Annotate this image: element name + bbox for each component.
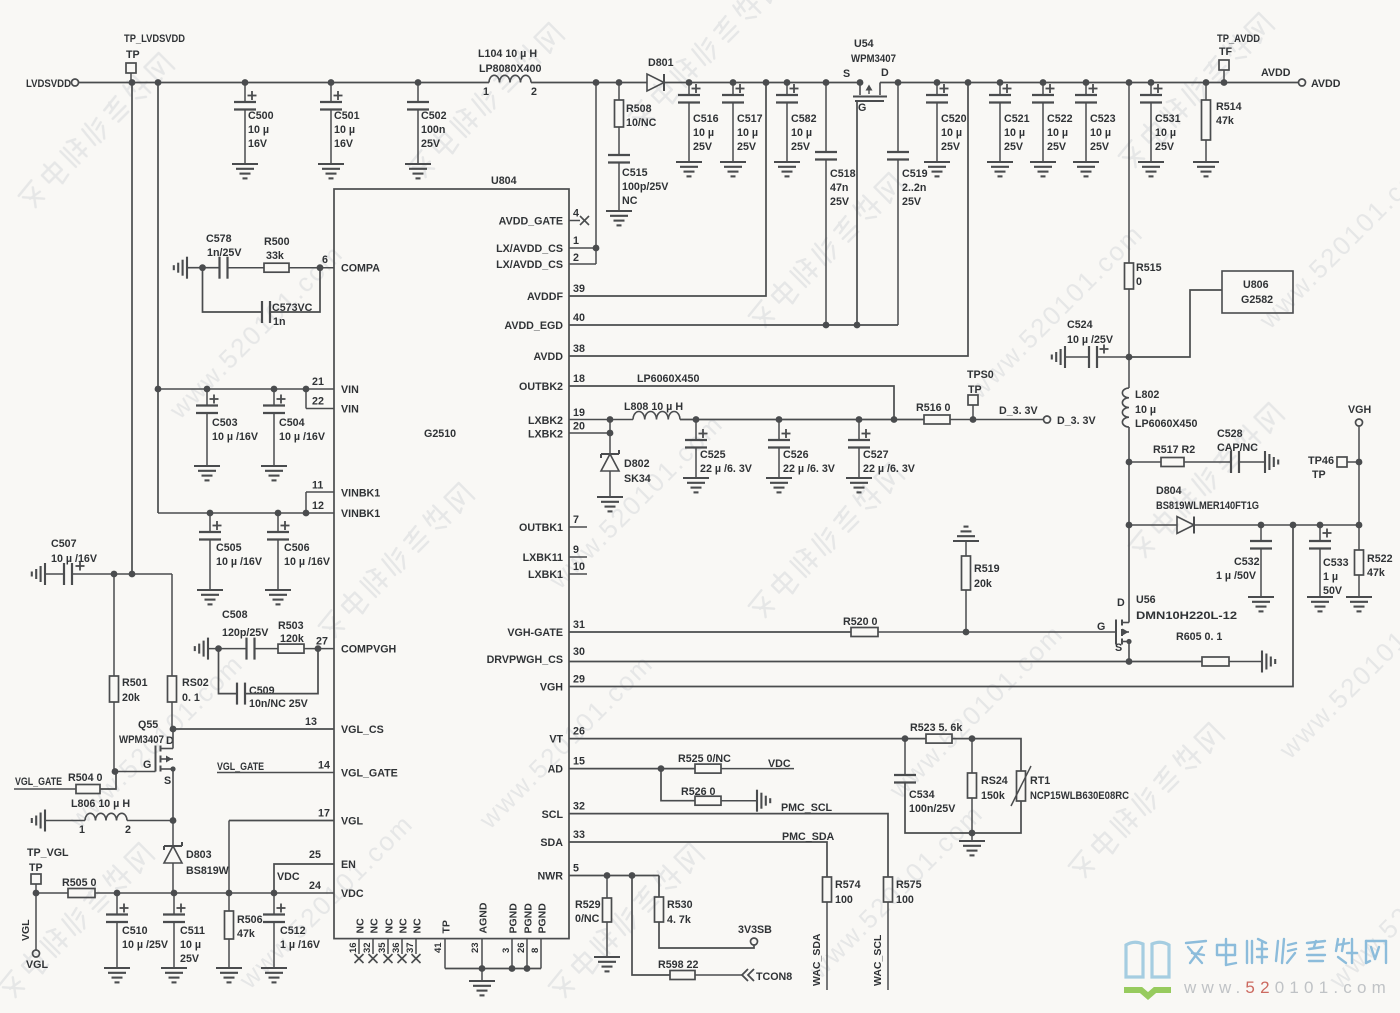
wire LX/AVDD_CS pins 1-2: [569, 83, 596, 265]
svg-text:22: 22: [312, 396, 324, 408]
svg-text:VT: VT: [549, 734, 563, 746]
svg-text:12: 12: [312, 500, 324, 512]
svg-text:120k: 120k: [280, 633, 304, 645]
junction C524 node: [1126, 354, 1133, 361]
capacitor C519: [887, 83, 928, 326]
ground C506: [265, 590, 291, 604]
svg-text:LP8080X400: LP8080X400: [479, 63, 541, 75]
wire DRVPWGH_CS pin 30: [569, 661, 1202, 663]
junction pin1 node: [593, 245, 600, 252]
svg-text:15: 15: [573, 756, 585, 768]
svg-text:DRVPWGH_CS: DRVPWGH_CS: [487, 654, 563, 666]
junction RS24 tap: [969, 735, 976, 742]
svg-text:0/NC: 0/NC: [575, 913, 600, 925]
junction AVDDF pin39 riser: [763, 79, 770, 86]
svg-text:VGL_CS: VGL_CS: [341, 724, 384, 736]
svg-text:25V: 25V: [421, 138, 441, 150]
svg-text:R504 0: R504 0: [68, 772, 103, 784]
junction riser-VIN: [155, 386, 162, 393]
ground C500: [232, 164, 258, 178]
svg-text:LX/AVDD_CS: LX/AVDD_CS: [496, 259, 563, 271]
svg-text:TP: TP: [1312, 469, 1326, 481]
svg-text:TP: TP: [126, 49, 140, 61]
svg-text:PMC_SCL: PMC_SCL: [781, 802, 833, 814]
svg-text:C582: C582: [791, 113, 817, 125]
capacitor C534: [894, 739, 972, 833]
svg-text:VGL_GATE: VGL_GATE: [15, 776, 62, 788]
capacitor C506: [267, 513, 331, 590]
svg-text:10 µ /25V: 10 µ /25V: [1067, 334, 1114, 346]
svg-text:C531: C531: [1155, 113, 1181, 125]
svg-text:35: 35: [377, 942, 388, 953]
svg-text:32: 32: [362, 942, 373, 953]
ground C532: [1248, 597, 1274, 611]
svg-text:COMPVGH: COMPVGH: [341, 644, 396, 656]
ground C533: [1307, 597, 1333, 611]
junction R519 tap: [963, 629, 970, 636]
svg-text:22 µ /6. 3V: 22 µ /6. 3V: [863, 463, 916, 475]
svg-text:AVDD_EGD: AVDD_EGD: [504, 320, 563, 332]
resistor R575 100: [872, 877, 922, 990]
resistor R574 100: [811, 877, 861, 990]
svg-text:9: 9: [573, 544, 579, 556]
svg-text:WPM3407: WPM3407: [119, 734, 164, 746]
svg-text:G: G: [858, 102, 866, 114]
svg-text:VGH-GATE: VGH-GATE: [507, 627, 563, 639]
wire LXBK2 pins 19-20: [569, 420, 633, 457]
svg-text:R506: R506: [237, 914, 263, 926]
svg-text:1n/25V: 1n/25V: [207, 247, 242, 259]
svg-text:22 µ /6. 3V: 22 µ /6. 3V: [783, 463, 836, 475]
junction R501 tap: [111, 571, 118, 578]
svg-text:100: 100: [835, 894, 853, 906]
svg-text:TP: TP: [441, 920, 453, 933]
svg-text:C527: C527: [863, 449, 889, 461]
svg-text:LP6060X450: LP6060X450: [637, 373, 699, 385]
ground COMPVGH: [195, 638, 208, 660]
svg-text:33: 33: [573, 829, 585, 841]
junction riser end: [129, 571, 136, 578]
svg-text:39: 39: [573, 283, 585, 295]
svg-text:VGH: VGH: [540, 682, 563, 694]
pins PGND 3 26 8: [501, 903, 549, 969]
svg-text:20: 20: [573, 421, 585, 433]
junction C506 tap: [275, 510, 282, 517]
svg-text:NC: NC: [369, 918, 381, 934]
svg-text:AD: AD: [548, 764, 564, 776]
diode D803 BS819W: [164, 821, 230, 894]
ground C502: [405, 164, 431, 178]
svg-text:PMC_SDA: PMC_SDA: [782, 831, 835, 843]
svg-text:VDC: VDC: [277, 871, 300, 883]
capacitor C512: [263, 893, 321, 968]
svg-text:www.520101.com: www.520101.com: [542, 408, 729, 595]
svg-text:C511: C511: [180, 925, 205, 937]
ground C521: [987, 162, 1013, 176]
junction C526 tap: [776, 416, 783, 423]
capacitor C578: [206, 233, 242, 279]
resistor R598 22: [632, 876, 742, 980]
wire COMPA: [187, 267, 220, 269]
svg-text:C512: C512: [280, 925, 306, 937]
junction C505 tap: [207, 510, 214, 517]
junction C523 tap: [1083, 79, 1090, 86]
svg-text:AVDD: AVDD: [534, 351, 564, 363]
capacitor C523: [1075, 83, 1116, 163]
ground C501: [318, 164, 344, 178]
net label VGL terminal: [20, 893, 48, 971]
capacitor C531: [1140, 83, 1181, 163]
svg-text:OUTBK1: OUTBK1: [519, 522, 563, 534]
ground C511: [161, 968, 187, 982]
svg-text:C519: C519: [902, 168, 928, 180]
svg-text:G2510: G2510: [424, 428, 456, 440]
wire VGH-GATE pin 31: [569, 631, 851, 633]
resistor R500: [228, 236, 335, 272]
svg-text:2: 2: [573, 252, 579, 264]
wire OUTBK2 pin 18: [569, 386, 894, 420]
wire LVDSVDD rail: [79, 82, 1299, 84]
net label VGH terminal: [1348, 404, 1371, 525]
svg-text:C522: C522: [1047, 113, 1073, 125]
ground C510: [104, 968, 130, 982]
svg-text:VIN: VIN: [341, 384, 359, 396]
svg-text:OUTBK2: OUTBK2: [519, 381, 563, 393]
junction TPS0 tap: [970, 416, 977, 423]
junction Q55 drain node: [170, 726, 177, 733]
svg-text:VGL: VGL: [341, 816, 363, 828]
svg-text:26: 26: [516, 942, 527, 953]
svg-text:www.520101.com: www.520101.com: [232, 808, 419, 995]
svg-text:G: G: [143, 759, 151, 771]
resistor R514: [1202, 83, 1242, 163]
svg-text:19: 19: [573, 407, 585, 419]
svg-text:R520 0: R520 0: [843, 616, 878, 628]
svg-text:25V: 25V: [180, 953, 200, 965]
ground C520: [924, 162, 950, 176]
ground D802: [597, 497, 623, 511]
svg-text:C524: C524: [1067, 319, 1093, 331]
svg-text:C528: C528: [1217, 428, 1243, 440]
svg-text:10n/NC 25V: 10n/NC 25V: [249, 698, 309, 710]
junction U54 gate to EGD: [854, 322, 861, 329]
svg-text:DMN10H220L-12: DMN10H220L-12: [1136, 610, 1237, 622]
svg-text:R505 0: R505 0: [62, 877, 97, 889]
svg-text:C518: C518: [830, 168, 856, 180]
svg-text:L802: L802: [1135, 389, 1159, 401]
svg-text:10 µ: 10 µ: [1155, 127, 1176, 139]
svg-text:C515: C515: [622, 167, 648, 179]
svg-text:www.520101.com: www.520101.com: [1272, 578, 1400, 765]
capacitor C521: [989, 83, 1030, 163]
capacitor C522: [1032, 83, 1073, 163]
svg-text:23: 23: [470, 942, 481, 953]
resistor R508: [615, 83, 657, 156]
svg-text:C509: C509: [249, 685, 275, 697]
junction TP_VGL node: [33, 890, 40, 897]
svg-text:LX/AVDD_CS: LX/AVDD_CS: [496, 243, 563, 255]
wire D3.3V rail: [680, 419, 924, 421]
junction C516 tap: [686, 79, 693, 86]
svg-text:25V: 25V: [791, 141, 811, 153]
junction C522 tap: [1040, 79, 1047, 86]
junction pin27 node: [315, 645, 322, 652]
svg-text:6: 6: [322, 254, 328, 266]
junction R530 tap: [629, 872, 636, 879]
junction AVDD pin38 riser: [965, 79, 972, 86]
svg-text:100n/25V: 100n/25V: [909, 803, 956, 815]
op-amp U804 G2510 main IC: [334, 175, 569, 939]
svg-text:10 µ /16V: 10 µ /16V: [284, 556, 331, 568]
capacitor C518: [815, 83, 856, 326]
resistor R503 120k: [255, 620, 334, 653]
svg-text:100p/25V: 100p/25V: [622, 181, 669, 193]
svg-text:25V: 25V: [830, 196, 850, 208]
svg-text:VINBK1: VINBK1: [341, 508, 380, 520]
ground C515: [606, 211, 632, 225]
svg-text:C507: C507: [51, 538, 77, 550]
svg-text:C516: C516: [693, 113, 719, 125]
junction C518 to EGD: [823, 322, 830, 329]
junction C582 tap: [784, 79, 791, 86]
junction left riser tap: [155, 79, 162, 86]
svg-text:10/NC: 10/NC: [626, 117, 657, 129]
ground C525: [683, 478, 709, 492]
wire AD pin 15: [569, 768, 695, 770]
svg-text:36: 36: [391, 942, 402, 953]
svg-text:17: 17: [318, 808, 330, 820]
svg-text:U804: U804: [491, 175, 517, 187]
svg-text:U56: U56: [1136, 594, 1156, 606]
svg-text:L806 10 µ H: L806 10 µ H: [71, 798, 130, 810]
wire VIN pins 21-22: [158, 389, 334, 409]
capacitor C504: [263, 389, 326, 466]
svg-text:18: 18: [573, 373, 585, 385]
svg-text:32: 32: [573, 801, 585, 813]
svg-text:3V3SB: 3V3SB: [738, 924, 772, 936]
ground C526: [766, 478, 792, 492]
resistor R520 0: [843, 616, 1116, 637]
capacitor C520: [926, 83, 967, 163]
junction L806-Q55 node: [170, 817, 177, 824]
junction C517 tap: [730, 79, 737, 86]
wire NWR pin 5: [569, 875, 659, 877]
capacitor C507: [32, 538, 172, 585]
capacitor C505: [199, 513, 263, 590]
svg-text:R530: R530: [667, 899, 693, 911]
junction C520 tap: [934, 79, 941, 86]
svg-text:R501: R501: [122, 677, 148, 689]
svg-text:47k: 47k: [237, 928, 255, 940]
svg-text:31: 31: [573, 619, 585, 631]
junction TP_LVDSVDD tap: [129, 79, 136, 86]
svg-text:WAC_SDA: WAC_SDA: [811, 933, 823, 986]
svg-text:NWR: NWR: [537, 871, 563, 883]
svg-text:2: 2: [531, 86, 537, 98]
svg-text:VINBK1: VINBK1: [341, 488, 380, 500]
capacitor C515: [608, 155, 669, 211]
svg-text:RS24: RS24: [981, 775, 1008, 787]
junction C531 tap: [1148, 79, 1155, 86]
svg-text:38: 38: [573, 343, 585, 355]
capacitor C532: [1216, 525, 1272, 597]
svg-text:S: S: [164, 775, 171, 787]
svg-text:R515: R515: [1136, 262, 1162, 274]
resistor R530 4.7k: [655, 876, 755, 949]
svg-text:C510: C510: [122, 925, 148, 937]
junction U54 source: [857, 79, 864, 86]
svg-text:VGL_GATE: VGL_GATE: [217, 761, 264, 773]
svg-text:NC: NC: [412, 918, 424, 934]
svg-text:C520: C520: [941, 113, 967, 125]
svg-text:NC: NC: [622, 195, 638, 207]
net label LVDSVDD: [26, 78, 79, 90]
junction C534 tap: [902, 735, 909, 742]
svg-text:10 µ: 10 µ: [1004, 127, 1025, 139]
diode D802 SK34: [601, 450, 651, 497]
svg-text:2: 2: [125, 824, 131, 836]
junction R515 riser: [1126, 79, 1133, 86]
wire VGL_CS pin 13: [173, 728, 334, 730]
svg-text:R525 0/NC: R525 0/NC: [678, 753, 731, 765]
net label D_3.3V: [999, 405, 1096, 427]
svg-text:0. 1: 0. 1: [182, 692, 200, 704]
svg-text:150k: 150k: [981, 790, 1005, 802]
capacitor C511: [163, 893, 205, 968]
capacitor C510: [106, 893, 169, 968]
svg-text:14: 14: [318, 760, 330, 772]
svg-text:1 µ /16V: 1 µ /16V: [280, 939, 321, 951]
junction PGND3 join: [509, 965, 516, 972]
capacitor C524: [1052, 319, 1129, 368]
resistor R505 0: [36, 877, 334, 898]
svg-text:C534: C534: [909, 789, 935, 801]
svg-text:10 µ: 10 µ: [1090, 127, 1111, 139]
svg-text:26: 26: [573, 726, 585, 738]
svg-text:22 µ /6. 3V: 22 µ /6. 3V: [700, 463, 753, 475]
ground C523: [1073, 162, 1099, 176]
svg-text:AGND: AGND: [478, 902, 490, 933]
svg-text:S: S: [843, 68, 850, 80]
svg-text:1: 1: [573, 235, 579, 247]
resistor RS02 0.1: [168, 574, 209, 729]
svg-text:10: 10: [573, 561, 585, 573]
svg-text:C578: C578: [206, 233, 232, 245]
ground R514: [1193, 162, 1219, 176]
testpoint TP_LVDSVDD: [124, 33, 185, 83]
svg-text:U54: U54: [854, 38, 874, 50]
svg-text:R598 22: R598 22: [658, 959, 698, 971]
svg-text:VGL_GATE: VGL_GATE: [341, 768, 398, 780]
junction R522 node: [1356, 522, 1363, 529]
svg-text:1: 1: [79, 824, 85, 836]
svg-text:10 µ /16V: 10 µ /16V: [216, 556, 263, 568]
svg-text:www.520101.com: www.520101.com: [472, 648, 659, 835]
svg-text:VGH: VGH: [1348, 404, 1371, 416]
svg-text:25V: 25V: [941, 141, 961, 153]
resistor R529 0/NC: [575, 876, 612, 958]
junction C510 tap: [114, 890, 121, 897]
capacitor C573VC: [203, 268, 321, 328]
junction C578 node: [199, 264, 206, 271]
svg-text:NC: NC: [398, 918, 410, 934]
svg-text:2..2n: 2..2n: [902, 182, 926, 194]
net label VGL_GATE left: [14, 776, 76, 789]
svg-text:50V: 50V: [1323, 585, 1343, 597]
svg-text:10 µ: 10 µ: [693, 127, 714, 139]
svg-text:C506: C506: [284, 542, 310, 554]
svg-text:0: 0: [1136, 276, 1142, 288]
wire AVDD_EGD pin 40: [569, 324, 898, 326]
resistor R522 47k: [1355, 525, 1393, 597]
svg-text:G: G: [1097, 621, 1105, 633]
wire EN pin 25: [274, 864, 334, 893]
resistor R605 0.1: [1176, 631, 1262, 666]
svg-text:10 µ: 10 µ: [737, 127, 758, 139]
ground R529: [594, 957, 620, 971]
wire VGL pin 17: [229, 820, 334, 822]
resistor R525 0/NC: [678, 753, 794, 773]
logo text jiadian weixiu ziliao wang: [1186, 939, 1386, 965]
svg-text:TP_LVDSVDD: TP_LVDSVDD: [124, 33, 185, 45]
junction C504 tap: [271, 386, 278, 393]
diode D804 BS819WLMER140FT1G: [1129, 485, 1359, 534]
wire ground bus: [445, 968, 541, 970]
svg-text:R516 0: R516 0: [916, 402, 951, 414]
capacitor C500: [234, 83, 274, 165]
svg-text:1 µ /50V: 1 µ /50V: [1216, 570, 1257, 582]
pin 23 AGND: [470, 902, 490, 968]
svg-text:16: 16: [348, 942, 359, 953]
svg-text:EN: EN: [341, 859, 356, 871]
svg-text:NCP15WLB630E08RC: NCP15WLB630E08RC: [1030, 790, 1129, 802]
svg-text:40: 40: [573, 312, 585, 324]
resistor R515 0: [1125, 83, 1162, 358]
capacitor C582: [776, 83, 817, 163]
svg-text:R522: R522: [1367, 553, 1393, 565]
junction pin20 node: [607, 430, 614, 437]
ground R522: [1346, 597, 1372, 611]
junction U56 source node: [1126, 658, 1133, 665]
ground C503: [194, 466, 220, 480]
wire SDA pin 33 PMC_SDA: [569, 831, 835, 877]
capacitor C526: [768, 420, 836, 479]
svg-text:D: D: [1117, 597, 1125, 609]
ground C527: [846, 478, 872, 492]
junction R517 node: [1126, 459, 1133, 466]
svg-text:C523: C523: [1090, 113, 1116, 125]
transistor U56 DMN10H220L-12: [1097, 525, 1237, 662]
svg-text:U806: U806: [1243, 279, 1269, 291]
svg-text:D_3. 3V: D_3. 3V: [1057, 415, 1096, 427]
svg-text:100: 100: [896, 894, 914, 906]
junction AGND join: [479, 965, 486, 972]
diode D801: [647, 57, 674, 91]
transistor Q55 WPM3407: [115, 719, 176, 821]
svg-text:13: 13: [305, 716, 317, 728]
junction C533 tap: [1317, 522, 1324, 529]
svg-text:16V: 16V: [334, 138, 354, 150]
svg-text:1: 1: [483, 86, 489, 98]
svg-text:25: 25: [309, 849, 321, 861]
svg-text:PGND: PGND: [537, 903, 549, 934]
junction R508 tap: [616, 79, 623, 86]
capacitor C516: [678, 83, 719, 163]
resistor R501 20k: [110, 574, 148, 772]
junction pin19 node: [607, 416, 614, 423]
net label VGL_GATE pin14: [217, 761, 334, 773]
junction D804 anode node: [1126, 522, 1133, 529]
